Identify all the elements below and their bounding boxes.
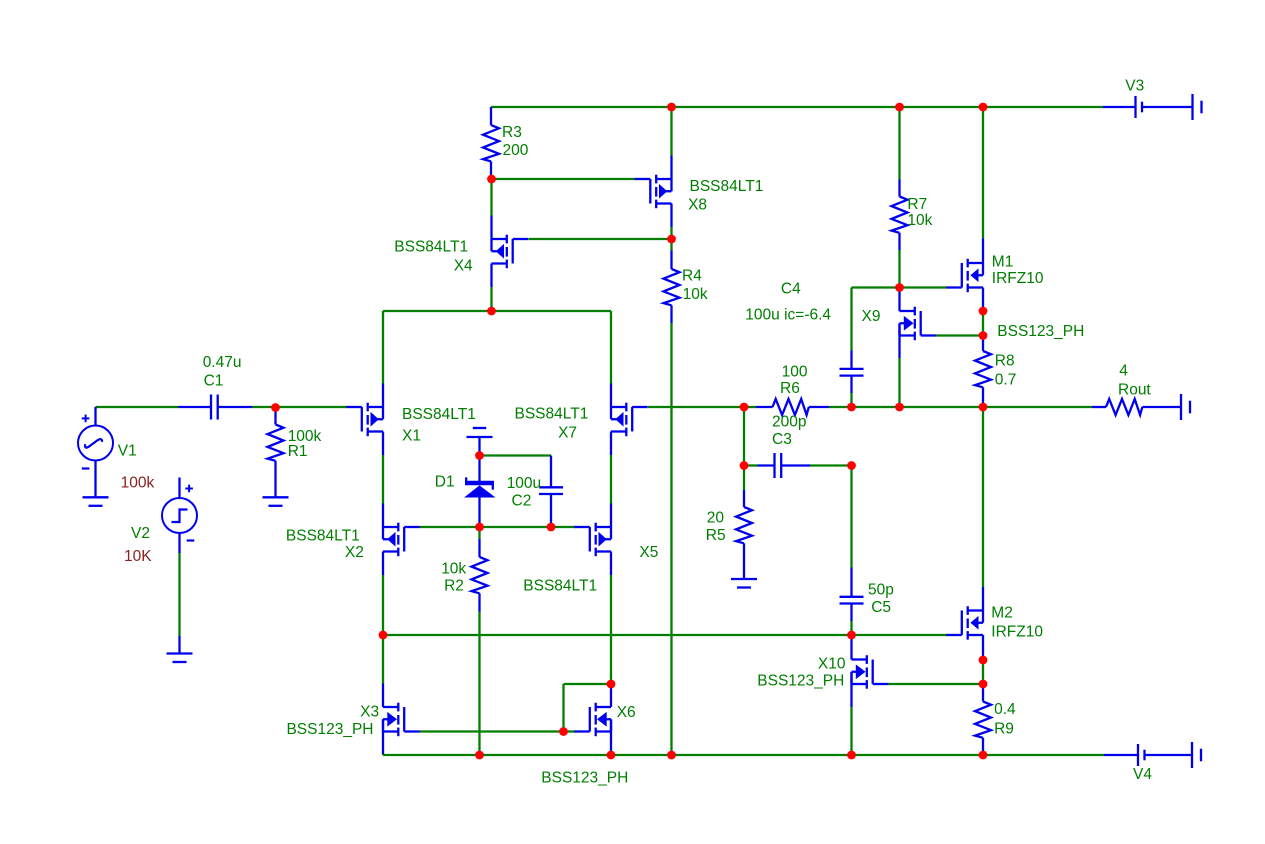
svg-text:20: 20 — [707, 510, 725, 527]
svg-text:X2: X2 — [345, 544, 364, 561]
svg-text:C2: C2 — [512, 493, 532, 510]
svg-text:R4: R4 — [682, 268, 702, 285]
svg-text:V3: V3 — [1125, 78, 1144, 95]
svg-text:IRFZ10: IRFZ10 — [991, 624, 1043, 641]
svg-text:100: 100 — [782, 363, 808, 380]
svg-text:V4: V4 — [1133, 766, 1152, 783]
svg-text:R5: R5 — [706, 527, 726, 544]
svg-text:Rout: Rout — [1118, 381, 1151, 398]
svg-text:IRFZ10: IRFZ10 — [992, 270, 1044, 287]
svg-text:BSS84LT1: BSS84LT1 — [402, 406, 476, 423]
svg-text:M1: M1 — [992, 254, 1014, 271]
svg-text:0.7: 0.7 — [995, 371, 1017, 388]
svg-text:R9: R9 — [994, 720, 1014, 737]
svg-text:200p: 200p — [772, 414, 806, 431]
svg-text:4: 4 — [1119, 363, 1128, 380]
svg-text:10K: 10K — [124, 548, 152, 565]
svg-text:R1: R1 — [288, 443, 308, 460]
svg-text:0.47u: 0.47u — [203, 354, 242, 371]
svg-text:X8: X8 — [688, 197, 707, 214]
svg-text:50p: 50p — [868, 582, 894, 599]
svg-text:X10: X10 — [818, 656, 846, 673]
svg-text:R3: R3 — [502, 124, 522, 141]
svg-text:C5: C5 — [871, 599, 891, 616]
svg-text:M2: M2 — [991, 604, 1013, 621]
svg-text:C3: C3 — [772, 431, 792, 448]
svg-text:100u: 100u — [507, 475, 541, 492]
svg-text:V1: V1 — [118, 443, 137, 460]
svg-text:R2: R2 — [444, 577, 464, 594]
svg-text:X5: X5 — [639, 544, 658, 561]
svg-text:BSS123_PH: BSS123_PH — [997, 323, 1084, 340]
svg-text:BSS84LT1: BSS84LT1 — [286, 528, 360, 545]
svg-text:BSS123_PH: BSS123_PH — [286, 721, 373, 738]
svg-text:200: 200 — [503, 142, 529, 159]
svg-text:100u ic=-6.4: 100u ic=-6.4 — [745, 306, 831, 323]
svg-text:X9: X9 — [862, 308, 881, 325]
svg-text:BSS84LT1: BSS84LT1 — [515, 406, 589, 423]
svg-text:X4: X4 — [454, 258, 473, 275]
svg-text:X1: X1 — [402, 428, 421, 445]
svg-text:0.4: 0.4 — [994, 701, 1016, 718]
svg-text:X3: X3 — [360, 704, 379, 721]
svg-text:10k: 10k — [907, 212, 932, 229]
svg-text:BSS84LT1: BSS84LT1 — [690, 178, 764, 195]
svg-text:D1: D1 — [435, 474, 455, 491]
svg-text:R7: R7 — [907, 196, 927, 213]
svg-text:BSS123_PH: BSS123_PH — [757, 673, 844, 690]
svg-text:10k: 10k — [683, 286, 708, 303]
svg-text:10k: 10k — [441, 560, 466, 577]
svg-text:X6: X6 — [617, 704, 636, 721]
svg-text:V2: V2 — [131, 525, 150, 542]
svg-text:BSS84LT1: BSS84LT1 — [394, 239, 468, 256]
svg-text:C1: C1 — [204, 373, 224, 390]
svg-text:BSS123_PH: BSS123_PH — [541, 770, 628, 787]
svg-text:R8: R8 — [995, 353, 1015, 370]
svg-text:BSS84LT1: BSS84LT1 — [523, 578, 597, 595]
svg-text:X7: X7 — [558, 425, 577, 442]
svg-text:C4: C4 — [781, 281, 801, 298]
svg-text:100k: 100k — [121, 475, 155, 492]
svg-text:R6: R6 — [780, 380, 800, 397]
